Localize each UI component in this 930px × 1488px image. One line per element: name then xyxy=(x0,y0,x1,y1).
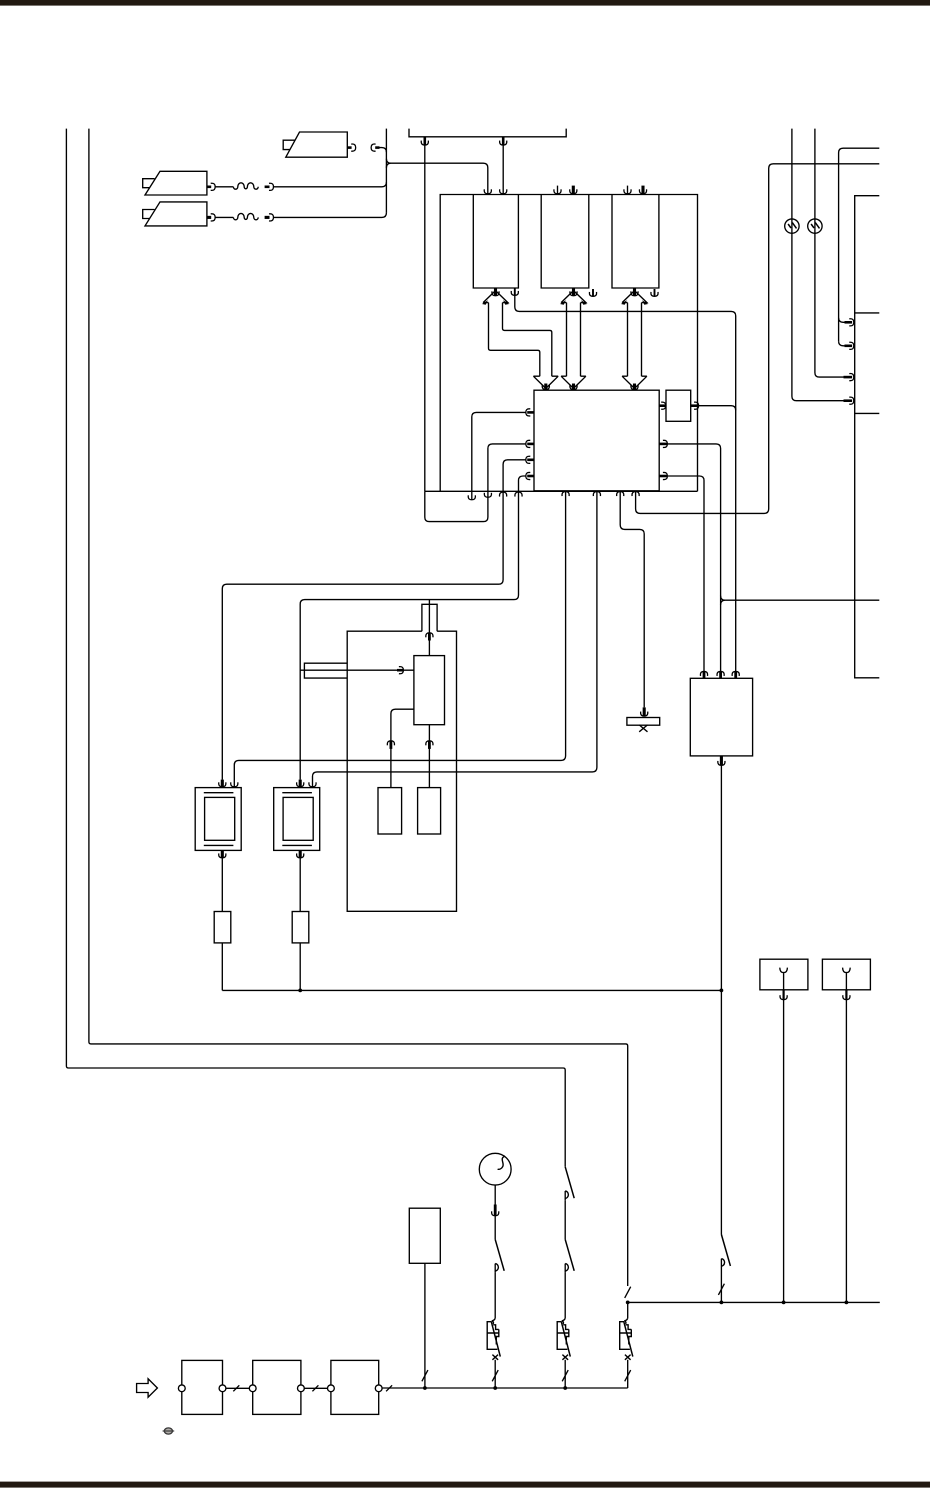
junction dot bus2/K4 column xyxy=(720,1301,724,1305)
wire FB1 to FB2 with slash xyxy=(226,1387,249,1389)
K2 left pin 3 arrow xyxy=(527,458,534,461)
K2 right pin 2 arrow xyxy=(659,443,667,446)
wire S2 line to riser xyxy=(274,213,387,218)
thick arrow on M1 wire xyxy=(494,1205,497,1216)
arrow up at K2 bottom pin a xyxy=(562,492,569,496)
speaker S1 output arrow xyxy=(207,186,211,189)
wire SW2b to breaker CB2 xyxy=(564,1273,566,1318)
tweeter TW1 outer frame xyxy=(195,788,241,851)
wire W1 to accessory bus xyxy=(783,1000,785,1303)
K2 left pin 2 arrow xyxy=(527,443,534,446)
option marker dot xyxy=(164,1428,172,1434)
TW1 bottom inner line xyxy=(204,844,234,846)
choke L1 (squiggle) xyxy=(233,183,258,189)
tuner block T1 (left cell in K1) xyxy=(473,195,518,289)
arrow on pin2 wire at K1 bottom xyxy=(484,493,491,497)
wire S2 to choke xyxy=(215,216,233,218)
wire between SW2a and SW2b xyxy=(564,1200,566,1239)
M1 internal squiggle xyxy=(498,1156,505,1169)
speaker S2 body (top-left, lower) xyxy=(145,202,207,226)
junction dot K4 wire/bus xyxy=(720,989,724,993)
noise condenser C1 bar xyxy=(627,718,660,726)
hollow bus arrow up at T3 xyxy=(622,291,647,303)
main bottom bus y=1388 xyxy=(382,1387,628,1389)
power window box W2 xyxy=(822,959,870,990)
circuit breaker CB3 xyxy=(620,1318,633,1360)
amp / crossover unit J1 xyxy=(414,656,445,725)
wire K2 pin3 right to K4 xyxy=(668,476,705,671)
wire CB3 to main bus corner with slash xyxy=(627,1360,629,1388)
junction dot bus2/column3 xyxy=(626,1301,630,1305)
speaker S2 tab xyxy=(143,210,155,219)
circuit breaker CB1 xyxy=(487,1318,500,1360)
wire pin4 down-left to tweeter TW2 xyxy=(300,492,518,780)
arrow out of W1 bottom xyxy=(782,990,784,1000)
condenser ground X mark xyxy=(639,725,647,732)
junction dot CB2/main bus xyxy=(563,1386,567,1390)
hollow bus arrow up at T1 xyxy=(483,291,508,303)
page edge stub y=312.9 xyxy=(855,312,880,314)
shield pigtail bracket (shielded cable around TW2 feed) xyxy=(304,663,347,678)
wire J1 bottom down to damper DR2 xyxy=(428,725,430,788)
switch SW2b xyxy=(565,1239,574,1270)
thick arrow below T3 bottom xyxy=(633,288,636,296)
K2 right pin 1 arrow to adapter xyxy=(659,404,665,407)
column3 slash mark above bus2 xyxy=(625,1287,631,1298)
branch wire from lead2 to page edge (beak at y=600.2) xyxy=(721,596,880,605)
stub arrow into T3 top (thick) xyxy=(641,186,644,194)
thick arrow out of TW1 bottom xyxy=(221,850,224,857)
TW2 bottom inner line xyxy=(282,844,312,846)
wire CB2 to main bus with slash xyxy=(564,1360,566,1388)
wire dimmer feed from page edge (y=148.2) xyxy=(839,148,880,341)
thick arrow below T1 bottom xyxy=(494,288,497,296)
arrow into node column (lamp2 wire) xyxy=(844,376,853,379)
FB2 left terminal circle xyxy=(249,1385,256,1392)
unit K2 main block (head unit) xyxy=(534,390,659,491)
K2 left pin 4 arrow xyxy=(527,475,534,478)
accessory bus y=1302.4 xyxy=(628,1301,880,1303)
bulb B2 filament dashes xyxy=(811,223,819,229)
wire K2 pin a to TW1 second lead xyxy=(234,492,565,787)
connector arrow facing S3 xyxy=(375,146,379,149)
wire R1 to ground bus xyxy=(221,943,223,991)
fuse block FB3 xyxy=(331,1360,379,1414)
wire K2 pin c to noise condenser xyxy=(620,492,644,708)
wire adapter to dropper riser (beak join) xyxy=(699,406,736,411)
illumination bulb B1 xyxy=(785,219,799,233)
wire BT1 down to main bus with slash xyxy=(424,1263,426,1388)
wire K2 pin2 loop to K1 corner xyxy=(425,444,526,522)
junction dot BT1/main bus xyxy=(423,1386,427,1390)
wire pin3 down-left to tweeter TW1 xyxy=(222,492,503,780)
page bottom black bar xyxy=(0,1482,930,1488)
TW2 top inner line xyxy=(282,792,312,794)
stub arrow below T1 right (to shield wire) xyxy=(514,288,516,295)
tweeter TW2 outer frame xyxy=(274,788,320,851)
thick arrow out of K4 bottom xyxy=(720,756,723,765)
thick arrow into K2 top (T3 bus) xyxy=(633,384,636,390)
thick arrow into K2 top (T1 bus) xyxy=(544,384,547,390)
wire M1 down xyxy=(494,1185,496,1239)
SW3 slash mark xyxy=(718,1284,724,1295)
wire K2 pin d right and up to page edge xyxy=(636,164,880,514)
resistor R1 xyxy=(214,912,231,943)
antenna sub-lead stub box (top, open-bottom U) xyxy=(409,129,566,137)
adapter box K3 (right of K2) xyxy=(666,390,691,421)
TW1 top inner line xyxy=(204,792,234,794)
fuse block FB1 xyxy=(182,1360,223,1414)
FB2 right terminal circle xyxy=(298,1385,305,1392)
stub arrow into T2 top (thin) xyxy=(557,186,559,194)
switch SW3 (K4 column) xyxy=(721,1235,730,1266)
W2 internal fork contact xyxy=(843,968,851,990)
thick arrow into K4 top lead2 xyxy=(719,672,722,678)
alternator/generator symbol M1 xyxy=(479,1153,511,1185)
dimmer feed branch arrow 2 into node column xyxy=(839,341,845,346)
arrow into node column (lamp1 wire) xyxy=(844,399,853,402)
wire TW2 feed tee into amp J1 left xyxy=(300,669,414,671)
arrow up at K2 bottom pin c xyxy=(617,492,624,496)
stub arrow below T2 right xyxy=(592,289,594,296)
stub arrow into T2 top (thick) xyxy=(572,186,575,194)
arrow into unit K1 top-left pin xyxy=(484,189,491,193)
wire column2 upper (from left bus A) and switch SW2a xyxy=(565,1167,574,1198)
fuse block FB2 xyxy=(253,1360,301,1414)
thick arrow into condenser top xyxy=(643,707,646,716)
dimmer feed branch arrow 1 into node column xyxy=(839,318,849,322)
stub arrow into T3 top (thin) xyxy=(627,186,629,194)
connector arrow after choke (S2 line) xyxy=(265,216,270,219)
wire illumination lamp 2 vertical xyxy=(815,129,844,378)
ground bus y=990.4 xyxy=(222,989,721,991)
unit K1 container bottom edge with left extension xyxy=(425,490,698,492)
arrow up on DR1 wire xyxy=(389,741,392,749)
arrow into TW1 top lead2 xyxy=(231,782,238,786)
node riser x=386.4 (speaker lines junction) xyxy=(385,129,387,213)
wire T1 aux right to dropper (y=311.4 long run) xyxy=(515,296,736,672)
bus pair T1 to bowtie (staircase) xyxy=(489,303,552,377)
power window box W1 xyxy=(760,959,808,990)
arrow out of adapter K3 xyxy=(691,404,699,407)
wire left bus B (vertical x=89 down, right along y=1044 to accessory column) xyxy=(89,129,628,1286)
unit K1 container box (radio/tuner assembly) xyxy=(440,195,697,492)
wire illumination lamp 1 vertical xyxy=(792,129,844,401)
arrow out of W2 bottom xyxy=(845,990,847,1000)
arrow from stub box lead 2 xyxy=(502,137,505,145)
hollow direction arrow (bottom left) xyxy=(137,1379,158,1397)
thick arrow out of TW2 bottom xyxy=(299,850,302,857)
K2 left pin 1 arrow xyxy=(527,411,534,414)
arrow up on DR2 wire xyxy=(428,741,431,749)
wire S3 line to riser xyxy=(380,148,387,153)
arrow end pin1 wire xyxy=(468,495,475,499)
node column x=854.7 (page-edge link bus) xyxy=(855,196,880,678)
speaker S3 tab xyxy=(283,140,295,149)
arrow up at K1 bottom (pin4 continuation) xyxy=(515,492,522,496)
bulb B1 filament dashes xyxy=(788,223,796,229)
arrow into TW2 top lead2 xyxy=(309,782,316,786)
shield hop (goal post over amp feed wire) xyxy=(422,604,437,631)
wire lead2 to unit K1 top xyxy=(502,145,504,193)
junction dot bus2/W1 xyxy=(782,1301,786,1305)
arrow up at K2 bottom pin b xyxy=(593,492,600,496)
junction dot bus2/W2 xyxy=(845,1301,849,1305)
arrow into J1 left pin xyxy=(397,669,403,672)
wire column3 bus2 to breaker CB3 xyxy=(627,1302,629,1318)
arrow up on amp feed below hop xyxy=(428,634,431,641)
wire TW2 to resistor R2 xyxy=(299,858,301,912)
wire K2 pin b to TW2 second lead xyxy=(313,492,597,787)
circuit breaker CB2 xyxy=(557,1318,570,1360)
speaker S1 body (top-left, upper) xyxy=(145,171,207,195)
wire SW3 to bus2 with slash xyxy=(720,1268,722,1302)
damper block DR1 xyxy=(378,788,402,834)
tuner block T2 (middle cell in K1) xyxy=(541,195,589,289)
FB3 left terminal circle xyxy=(328,1385,335,1392)
illumination bulb B2 xyxy=(808,219,822,233)
bus pair T3 straight down xyxy=(628,303,642,377)
thick arrow into K4 top lead1 xyxy=(703,672,706,678)
bus pair T2 straight down xyxy=(567,303,581,377)
thick arrow into TW2 top xyxy=(299,780,302,787)
wire K4 bottom long vertical to switch column xyxy=(720,766,722,1235)
thick arrow into TW1 top xyxy=(221,780,224,787)
wire left bus A (vertical x=66 down, right along y=1068 to ignition column) xyxy=(66,129,565,1167)
wire S1 to choke xyxy=(215,186,233,188)
arrow up at K1 bottom (pin3 continuation) xyxy=(500,492,507,496)
wire riser to radio branch (beak join at y=163.2) xyxy=(386,159,487,194)
shield enclosure box around amp section xyxy=(347,631,456,911)
thick arrow below T2 bottom xyxy=(572,288,575,296)
FB1 left terminal circle xyxy=(178,1385,185,1392)
thick arrow into K2 top (T2 bus) xyxy=(572,384,575,390)
amp relay unit K4 (lower box) xyxy=(690,678,752,756)
hollow bus arrow up at T2 xyxy=(561,291,586,303)
junction dot CB1/main bus xyxy=(493,1386,497,1390)
page edge stub y=413.4 xyxy=(855,412,880,414)
speaker S3 body (top-middle) xyxy=(286,132,348,157)
slash after FB3 xyxy=(386,1385,392,1391)
wire amp feed from y=599.6 tee down to amp J1 xyxy=(428,600,430,656)
wire FB2 to FB3 with slash xyxy=(304,1387,327,1389)
wire K2 pin4 to K1 bottom xyxy=(519,476,526,491)
hollow bus arrow down into K2 (from T2 pair) xyxy=(561,376,586,388)
wire CB1 to main bus with slash xyxy=(494,1360,496,1388)
hollow bus arrow down into K2 (from T3 pair) xyxy=(622,376,647,388)
damper block DR2 xyxy=(418,788,441,834)
ignition switch SW1 (column 1) xyxy=(495,1239,504,1270)
speaker S3 output arrow xyxy=(347,146,351,149)
speaker S1 tab xyxy=(143,179,155,188)
arrow up at K2 bottom pin d xyxy=(632,492,639,496)
tuner block T3 (right cell in K1) xyxy=(612,195,659,289)
wire K2 pin1 down through K1 bottom xyxy=(472,412,526,499)
wire SW1 to breaker CB1 xyxy=(494,1273,496,1318)
choke L2 (squiggle) xyxy=(233,213,258,219)
wire TW1 to resistor R1 xyxy=(221,858,223,912)
thick arrow into K4 top lead3 xyxy=(734,672,737,678)
stub arrow below T3 right xyxy=(654,289,656,296)
resistor R2 xyxy=(292,912,309,943)
FB1 right terminal circle xyxy=(219,1385,226,1392)
TW2 magnet inner box xyxy=(283,797,313,840)
FB3 right terminal circle xyxy=(375,1385,382,1392)
wire J1 left side tap down to damper DR1 xyxy=(391,709,414,787)
wire lead1 long vertical x=424.8 xyxy=(424,145,426,491)
connector arrow after choke (S1 line) xyxy=(265,186,270,189)
junction dot R2/bus xyxy=(298,989,302,993)
speaker S2 output arrow xyxy=(207,216,211,219)
arrow from stub box lead 1 xyxy=(423,137,426,145)
W1 internal fork contact xyxy=(780,968,788,990)
wire R2 to ground bus xyxy=(299,943,301,991)
page top black bar xyxy=(0,0,930,6)
hollow bus arrow down into K2 (from T1 pair) xyxy=(533,376,558,388)
K2 right pin 3 arrow xyxy=(659,475,667,478)
wire S1 line to riser xyxy=(274,182,387,187)
arrow into unit K1 top pin2 xyxy=(500,189,507,193)
battery feed box BT1 (tall rect) xyxy=(409,1208,440,1263)
TW1 magnet inner box xyxy=(205,797,235,840)
wire W2 to accessory bus xyxy=(845,1000,847,1303)
wire K2 pin2 right to K4 xyxy=(668,444,721,671)
wire K2 pin3 to K1 bottom xyxy=(503,460,526,492)
